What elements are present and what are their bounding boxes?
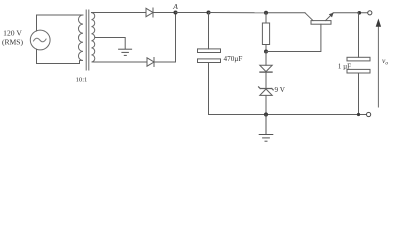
transformer T1 primary winding [78,15,83,61]
svg-text:470µF: 470µF [224,55,243,63]
ground bottom rail [259,115,273,142]
svg-text:1 µF: 1 µF [338,62,351,70]
wire source bottom lead [36,49,38,63]
resistor R [262,11,269,54]
emitter arrow [329,13,334,18]
base bar [311,21,331,25]
diode D3 [260,52,272,89]
capacitor C2 1uF [347,13,370,115]
diode D1 [146,8,153,17]
node bottom rail cap junction [357,113,360,116]
transformer T1 secondary winding [92,13,95,63]
wire D2 up to node A [154,13,176,63]
transistor Q1 [305,13,334,25]
svg-text:9 V: 9 V [275,86,286,94]
label 120 V (RMS) [2,29,24,47]
emitter lead [326,13,334,21]
wire top left to primary [37,14,84,16]
wire cap junction to resistor junction [209,12,267,14]
node cap C1 junction [207,11,211,15]
zener diode DZ 9V [259,87,274,115]
wire secondary top to diode D1 [92,12,147,14]
wire resistor junction to transistor collector [266,12,305,14]
svg-text:(RMS): (RMS) [2,38,24,47]
wire secondary bottom to diode D2 [94,61,147,63]
ac source VS [30,30,50,50]
node output top junction [358,11,362,15]
wire bottom rail [209,114,367,116]
wire emitter to output terminal [333,12,368,14]
collector lead [305,13,313,21]
svg-text:A: A [172,2,178,11]
terminal bottom output [367,112,371,116]
capacitor C1 470uF [198,13,221,115]
node A [174,11,178,15]
wire D1 to node A [153,12,176,14]
wire node A to cap junction [176,12,209,14]
wire bottom left to primary [37,61,80,64]
wire base from resistor junction [266,24,321,51]
ground center tap [119,49,132,55]
svg-text:vo: vo [382,56,388,67]
terminal top output [368,11,372,15]
svg-text:10:1: 10:1 [76,77,88,84]
transformer core [86,10,89,70]
diode D2 [147,58,154,67]
svg-text:120 V: 120 V [3,29,22,38]
arrow vo [376,19,381,108]
wire source top lead [36,15,38,31]
node bottom rail zener junction [264,112,268,116]
wire center tap [95,38,125,49]
